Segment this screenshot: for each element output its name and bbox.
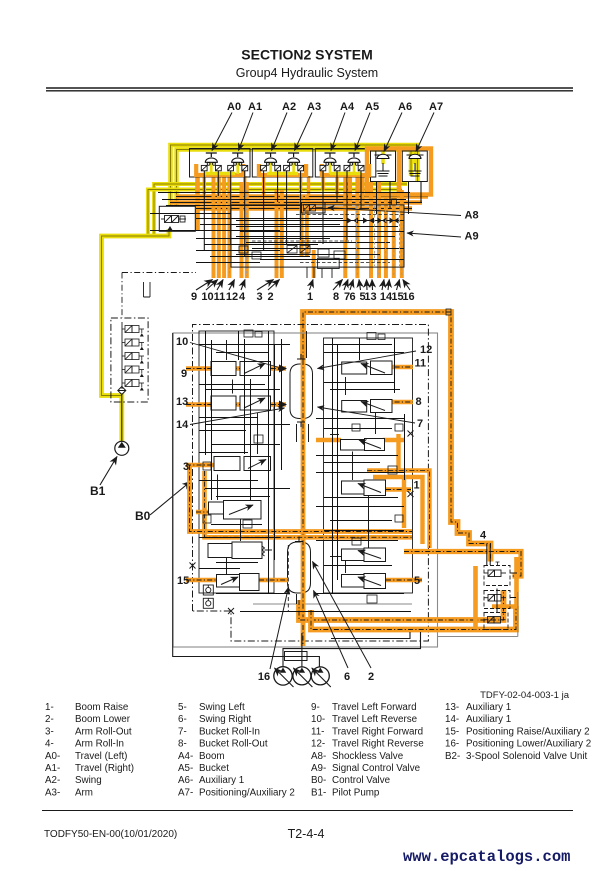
- lever valve A0: [201, 153, 221, 171]
- svg-text:13: 13: [364, 291, 376, 303]
- wire to port 11: [222, 177, 226, 278]
- svg-text:1: 1: [307, 291, 313, 303]
- pilot box underlay A2/A3: [259, 164, 306, 175]
- orange feed to B2 unit: [404, 552, 521, 577]
- svg-text:A0-: A0-: [45, 751, 60, 762]
- svg-text:A5: A5: [365, 101, 379, 113]
- right spool row 1 (travel right): [342, 361, 392, 375]
- orange line bundle core strokes: [170, 197, 428, 209]
- hidden line centre column: [287, 545, 289, 612]
- number row labels: [191, 291, 415, 303]
- check valve b: [203, 598, 213, 608]
- solenoid valve 4: [122, 366, 144, 377]
- svg-text:Positioning Lower/Auxiliary 2: Positioning Lower/Auxiliary 2: [466, 739, 591, 750]
- orange internal: capsule right stub: [316, 438, 404, 442]
- orange internal: right gallery verticals: [367, 434, 430, 548]
- svg-text:TDFY-02-04-003-1 ja: TDFY-02-04-003-1 ja: [480, 690, 570, 701]
- left spool row 1 (travel left): [211, 362, 271, 376]
- svg-text:www.epcatalogs.com: www.epcatalogs.com: [403, 848, 570, 866]
- orange bottom return band outer: [299, 590, 504, 620]
- svg-text:Boom: Boom: [199, 751, 225, 762]
- left spool row 4: [209, 501, 262, 520]
- A9 internal shuttle rows: [236, 221, 404, 260]
- shuttle valve glyphs: [347, 218, 399, 224]
- number row arrows: [196, 280, 410, 291]
- svg-text:Swing Left: Swing Left: [199, 702, 245, 713]
- label A9: [407, 231, 479, 243]
- wire to port 1 feed b: [305, 196, 309, 256]
- svg-text:14: 14: [176, 419, 189, 431]
- svg-text:B2-: B2-: [445, 751, 460, 762]
- svg-text:5-: 5-: [178, 702, 187, 713]
- lever valve A2: [261, 153, 281, 171]
- orange internal: port 3 feed: [186, 465, 412, 532]
- label A6: [384, 101, 412, 152]
- label A8: [328, 208, 479, 222]
- svg-text:4: 4: [480, 530, 487, 542]
- svg-text:Bucket Roll-In: Bucket Roll-In: [199, 726, 260, 737]
- B2 solenoid valve 1: [484, 562, 510, 586]
- port label 7: [318, 407, 424, 430]
- svg-text:10: 10: [201, 291, 213, 303]
- svg-text:3: 3: [183, 461, 189, 473]
- solenoid valve 1: [122, 326, 144, 337]
- control valve boundary (dash-dot): [193, 325, 429, 642]
- centre bypass capsule upper: [290, 364, 313, 419]
- label B1: [90, 457, 117, 499]
- svg-text:Arm Roll-Out: Arm Roll-Out: [75, 726, 132, 737]
- orange pilot lines: verticals under pilot valve ports: [198, 176, 362, 230]
- svg-text:Travel (Right): Travel (Right): [75, 763, 134, 774]
- yellow drops into pedal valves: [383, 150, 415, 164]
- reducing valve glyph: [161, 216, 186, 223]
- svg-text:Arm Roll-In: Arm Roll-In: [75, 739, 124, 750]
- svg-text:A7: A7: [429, 101, 443, 113]
- svg-text:Travel Right Reverse: Travel Right Reverse: [332, 739, 424, 750]
- svg-text:A3-: A3-: [45, 787, 60, 798]
- svg-text:A7-: A7-: [178, 787, 193, 798]
- manifold internal rail: [121, 322, 123, 389]
- svg-text:12-: 12-: [311, 739, 325, 750]
- orange bottom return band inner: [311, 606, 516, 630]
- solenoid valve 5: [122, 380, 144, 391]
- svg-text:7-: 7-: [178, 726, 187, 737]
- label A3: [295, 101, 322, 151]
- svg-text:3-Spool Solenoid Valve Unit: 3-Spool Solenoid Valve Unit: [466, 751, 588, 762]
- svg-text:Swing Right: Swing Right: [199, 714, 252, 725]
- svg-text:Auxiliary 1: Auxiliary 1: [466, 714, 511, 725]
- svg-text:9: 9: [181, 368, 187, 380]
- B2 black plumbing: [487, 544, 517, 612]
- port label 8: [416, 396, 422, 408]
- shockless valve A8: [302, 203, 326, 214]
- svg-text:6-: 6-: [178, 714, 187, 725]
- solenoid valve 3: [122, 353, 144, 364]
- pedal valve A6 glyph: [375, 154, 392, 176]
- wire to port 15: [400, 190, 404, 278]
- centre orange feed through block: [301, 360, 306, 646]
- pilot valve box A2/A3: [252, 149, 312, 178]
- svg-text:4-: 4-: [45, 739, 54, 750]
- svg-text:11-: 11-: [311, 726, 324, 737]
- orange drop columns to control valve stubs: [214, 177, 402, 278]
- solenoid manifold box (dashed): [111, 318, 148, 402]
- wire to port 14b: [392, 197, 396, 278]
- B2 orange jacket: [476, 557, 517, 630]
- svg-text:Bucket: Bucket: [199, 763, 229, 774]
- signal control valve A9 box: [231, 205, 404, 267]
- orange internal: port 9 line: [186, 365, 287, 373]
- svg-text:11: 11: [415, 358, 427, 370]
- pedal valve box A7: [399, 149, 431, 195]
- pilot pump line down: [121, 395, 123, 442]
- svg-text:Positioning Raise/Auxiliary 2: Positioning Raise/Auxiliary 2: [466, 726, 590, 737]
- yellow line to pilot pump B1: [102, 229, 170, 441]
- label A0: [212, 101, 241, 151]
- wire to port 13a: [369, 182, 373, 278]
- lever valve A1: [228, 153, 248, 171]
- wire to port 2: [280, 190, 284, 278]
- svg-text:B1: B1: [90, 484, 106, 498]
- wire to port 10: [217, 177, 221, 278]
- pilot box underlay A4/A5: [322, 164, 369, 175]
- label B0: [135, 482, 191, 524]
- label 6 (bottom): [314, 591, 351, 684]
- wire to port 8: [343, 177, 347, 278]
- orange internal: port 13 line: [186, 401, 287, 409]
- svg-text:10: 10: [176, 336, 188, 348]
- svg-text:10-: 10-: [311, 714, 325, 725]
- right spool row 6: [342, 574, 386, 589]
- svg-text:Auxiliary 1: Auxiliary 1: [466, 702, 511, 713]
- svg-text:9-: 9-: [311, 702, 320, 713]
- svg-text:11: 11: [214, 291, 226, 303]
- gray hidden cores in drop columns: [229, 190, 401, 276]
- label A4: [331, 101, 355, 151]
- svg-text:A9: A9: [465, 231, 479, 243]
- svg-text:A2-: A2-: [45, 775, 60, 786]
- main pump 3: [311, 667, 331, 687]
- thin black bundle horizontals: [150, 193, 410, 263]
- lever valve A3: [284, 153, 304, 171]
- lower mini manifold under A9: [122, 258, 339, 318]
- svg-text:B0: B0: [135, 509, 151, 523]
- junction check valve: [118, 387, 126, 395]
- svg-text:A1: A1: [248, 101, 262, 113]
- label A2: [272, 101, 297, 151]
- orange internal: port 1 line: [386, 487, 411, 492]
- wire to port 1: [312, 250, 316, 278]
- svg-text:B1-: B1-: [311, 787, 326, 798]
- svg-text:A8-: A8-: [311, 751, 326, 762]
- svg-text:16-: 16-: [445, 739, 459, 750]
- svg-text:1: 1: [414, 480, 420, 492]
- orange internal: port 15 line: [186, 578, 217, 583]
- wire to port 4a: [240, 182, 244, 278]
- outer housing (gray): [173, 333, 438, 647]
- orange internal: arm feed staircase second: [205, 471, 413, 537]
- svg-text:A6-: A6-: [178, 775, 193, 786]
- svg-text:Shockless Valve: Shockless Valve: [332, 751, 404, 762]
- svg-text:A1-: A1-: [45, 763, 60, 774]
- orange internal: port 8 line: [384, 400, 413, 405]
- svg-text:Boom Lower: Boom Lower: [75, 714, 131, 725]
- gray B2 housing line: [438, 636, 518, 638]
- svg-text:Travel Left Forward: Travel Left Forward: [332, 702, 417, 713]
- port label 9: [181, 368, 187, 380]
- svg-text:Travel Left Reverse: Travel Left Reverse: [332, 714, 418, 725]
- svg-text:Group4 Hydraulic System: Group4 Hydraulic System: [236, 66, 378, 80]
- svg-text:Boom Raise: Boom Raise: [75, 702, 129, 713]
- B2 solenoid valve 2: [484, 591, 510, 609]
- check valve a: [203, 585, 213, 595]
- svg-text:16: 16: [402, 291, 414, 303]
- right spool row 2 (bucket): [342, 400, 392, 413]
- thin black pilot port drops: [204, 171, 421, 256]
- svg-text:Control Valve: Control Valve: [332, 775, 391, 786]
- B2 solenoid valve 3: [484, 613, 508, 630]
- svg-text:13-: 13-: [445, 702, 459, 713]
- svg-text:Auxiliary 1: Auxiliary 1: [199, 775, 244, 786]
- wire port drop: [195, 177, 200, 230]
- svg-text:5: 5: [414, 575, 420, 587]
- wire to port 4b: [245, 182, 249, 278]
- svg-text:Pilot Pump: Pilot Pump: [332, 787, 380, 798]
- orange signal loop to control valve centre and port 4 / B2: [303, 312, 491, 562]
- left pilot signal unit box: [159, 206, 195, 231]
- yellow pilot supply loop outer: [171, 145, 418, 206]
- footer rule: [42, 810, 573, 812]
- svg-text:7: 7: [417, 418, 423, 430]
- svg-text:1-: 1-: [45, 702, 54, 713]
- wire to port 7: [348, 177, 352, 206]
- pilot box underlay A0/A1: [196, 164, 243, 175]
- svg-text:2-: 2-: [45, 714, 54, 725]
- A9 small internal comps: [239, 199, 397, 259]
- yellow bundle line upper: [154, 184, 407, 234]
- svg-text:Travel (Left): Travel (Left): [75, 751, 127, 762]
- wire to port 6: [355, 177, 359, 278]
- svg-text:A5-: A5-: [178, 763, 193, 774]
- gray hidden drops in A9: [357, 206, 400, 266]
- svg-text:14-: 14-: [445, 714, 459, 725]
- pilot valve box A0/A1: [190, 149, 251, 178]
- svg-text:6: 6: [344, 671, 350, 683]
- svg-text:3-: 3-: [45, 726, 54, 737]
- port label 11: [415, 358, 427, 370]
- pump suction lines: [173, 333, 421, 667]
- svg-text:9: 9: [191, 291, 197, 303]
- svg-text:A6: A6: [398, 101, 412, 113]
- inner section boundary right: [324, 338, 413, 593]
- svg-text:A9-: A9-: [311, 763, 326, 774]
- svg-text:A3: A3: [307, 101, 321, 113]
- svg-text:6: 6: [349, 291, 355, 303]
- internal thin plumbing mesh: [199, 331, 405, 594]
- orange internal: positioning line mid: [259, 578, 288, 583]
- port label 1: [414, 480, 420, 492]
- pump junction box: [285, 652, 308, 661]
- capsule ticks: [295, 354, 305, 542]
- svg-text:Signal Control Valve: Signal Control Valve: [332, 763, 421, 774]
- solenoid valve 2: [122, 339, 144, 350]
- svg-text:Swing: Swing: [75, 775, 102, 786]
- wire to port 1 feed a: [300, 196, 304, 256]
- svg-text:4: 4: [239, 291, 246, 303]
- svg-text:B0-: B0-: [311, 775, 326, 786]
- svg-text:12: 12: [420, 344, 432, 356]
- svg-text:15: 15: [177, 575, 189, 587]
- svg-text:2: 2: [267, 291, 273, 303]
- pilot pump B1 circle: [115, 441, 129, 455]
- right spool row 5: [342, 548, 386, 562]
- extra internal connectors: [199, 331, 411, 612]
- centre bypass capsule lower: [288, 542, 311, 593]
- left spool row 6 (positioning 15): [217, 574, 260, 591]
- port label 15: [177, 575, 189, 587]
- wire to port 14a: [384, 197, 388, 278]
- svg-text:15-: 15-: [445, 726, 459, 737]
- right spool row 3: [341, 439, 385, 451]
- port label 14: [176, 408, 285, 431]
- gray internal gallery line: [253, 603, 412, 605]
- A9 dashed gallery lines: [252, 215, 404, 263]
- main pump 2: [293, 667, 313, 687]
- right spool row 4 (boom): [342, 480, 386, 496]
- left spool row 2: [211, 396, 271, 410]
- svg-text:Bucket Roll-Out: Bucket Roll-Out: [199, 739, 268, 750]
- svg-text:A0: A0: [227, 101, 241, 113]
- wire to port 13b: [377, 182, 381, 278]
- header double rule: [46, 88, 573, 91]
- label A5: [355, 101, 379, 151]
- orange bundle horizontals: [170, 197, 428, 209]
- orange internal: arm feed branch: [196, 510, 232, 514]
- port label 10: [176, 336, 285, 369]
- pedal valve box A6: [367, 149, 399, 195]
- svg-text:8-: 8-: [178, 739, 187, 750]
- port label 13: [176, 396, 188, 408]
- svg-text:8: 8: [416, 396, 422, 408]
- svg-text:12: 12: [226, 291, 238, 303]
- svg-text:A2: A2: [282, 101, 296, 113]
- svg-text:TODFY50-EN-00(10/01/2020): TODFY50-EN-00(10/01/2020): [44, 829, 177, 840]
- left regen valve row 5: [208, 542, 272, 559]
- port label 3: [183, 461, 189, 473]
- inner section boundary left: [199, 331, 274, 593]
- pilot valve box A4/A5: [315, 149, 376, 178]
- svg-text:2: 2: [368, 671, 374, 683]
- pedal valve A7 glyph: [407, 154, 424, 176]
- svg-text:13: 13: [176, 396, 188, 408]
- svg-text:A8: A8: [465, 210, 479, 222]
- lever valve A5: [344, 153, 364, 171]
- label 2 (bottom): [313, 562, 375, 684]
- legend: [45, 702, 591, 798]
- small pilot caps on spools: [203, 309, 451, 603]
- svg-text:A4-: A4-: [178, 751, 193, 762]
- svg-text:Arm: Arm: [75, 787, 93, 798]
- orange internal: port 5 line: [386, 578, 422, 583]
- wire to port 3: [275, 190, 279, 278]
- svg-text:16: 16: [258, 671, 270, 683]
- boundary crossing marks: [190, 431, 414, 615]
- svg-text:3: 3: [256, 291, 262, 303]
- yellow bundle line lower: [148, 190, 402, 237]
- yellow pilot supply loop inner: [177, 150, 412, 207]
- wire to port 9: [212, 177, 216, 278]
- orange internal: port 11 line: [384, 365, 413, 370]
- port label 12: [318, 344, 433, 369]
- label A1: [239, 101, 263, 151]
- svg-text:A4: A4: [340, 101, 355, 113]
- svg-text:Travel Right Forward: Travel Right Forward: [332, 726, 423, 737]
- lever valve A4: [320, 153, 340, 171]
- wire to port 5: [361, 177, 365, 206]
- main pump 1: [274, 667, 294, 687]
- svg-text:8: 8: [333, 291, 339, 303]
- port label 5: [414, 575, 420, 587]
- label 16 (bottom): [258, 587, 289, 683]
- svg-text:SECTION2 SYSTEM: SECTION2 SYSTEM: [241, 47, 372, 63]
- label A7: [416, 101, 443, 152]
- wire to port 12: [227, 177, 231, 278]
- svg-text:Positioning/Auxiliary 2: Positioning/Auxiliary 2: [199, 787, 295, 798]
- svg-text:T2-4-4: T2-4-4: [288, 827, 325, 841]
- port label 4: [480, 530, 487, 542]
- left spool row 3 (arm): [214, 457, 271, 471]
